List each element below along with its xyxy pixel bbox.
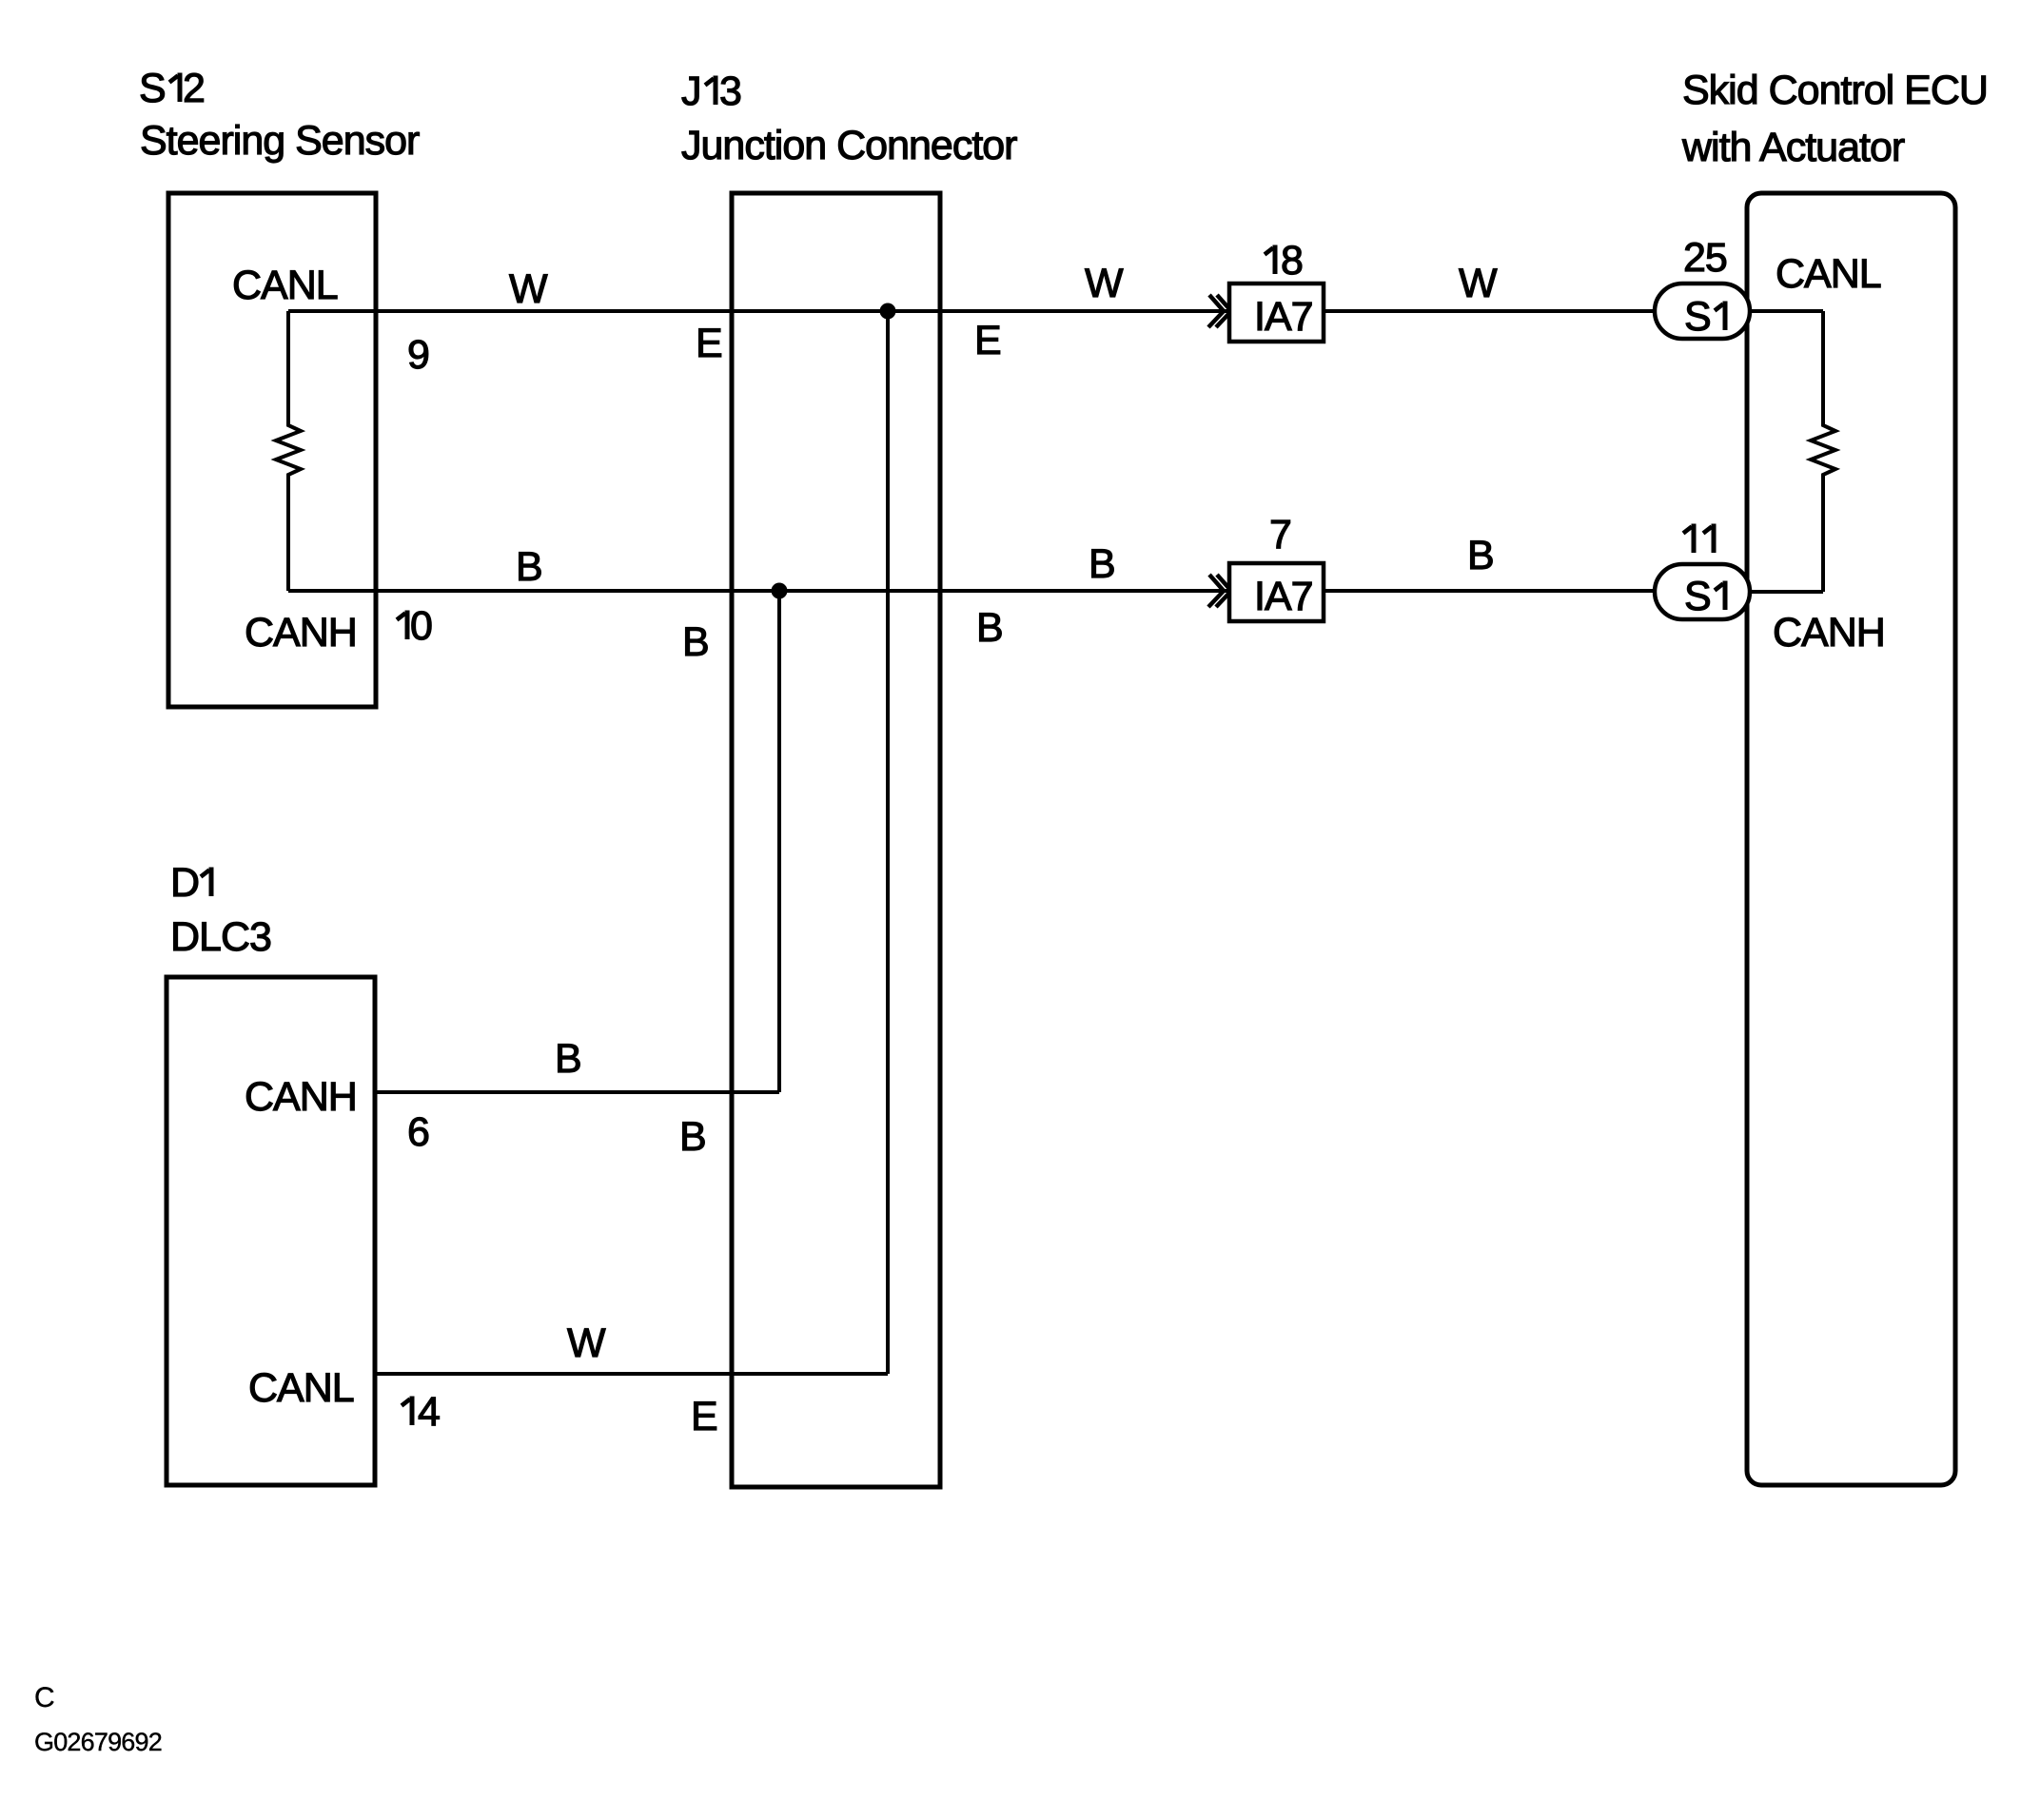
svg-text:CANH: CANH <box>245 1074 357 1120</box>
svg-text:C: C <box>34 1682 55 1713</box>
svg-text:D: D <box>170 860 199 906</box>
svg-text:Steering Sensor: Steering Sensor <box>140 118 420 164</box>
svg-text:B: B <box>682 619 709 665</box>
svg-text:Junction Connector: Junction Connector <box>681 123 1017 168</box>
svg-text:CANH: CANH <box>245 610 357 656</box>
svg-text:9: 9 <box>407 332 429 378</box>
svg-text:IA7: IA7 <box>1254 574 1313 619</box>
svg-text:CANL: CANL <box>232 263 338 308</box>
svg-text:Skid Control ECU: Skid Control ECU <box>1682 68 1988 113</box>
svg-text:E: E <box>691 1394 717 1439</box>
svg-text:W: W <box>1085 261 1124 306</box>
svg-text:S: S <box>1684 294 1711 340</box>
svg-text:B: B <box>555 1036 581 1082</box>
svg-text:E: E <box>696 321 722 366</box>
svg-text:S: S <box>139 66 166 111</box>
svg-text:W: W <box>509 266 548 312</box>
svg-text:CANL: CANL <box>248 1365 354 1411</box>
svg-text:3: 3 <box>719 68 741 114</box>
svg-text:B: B <box>516 544 542 590</box>
svg-text:W: W <box>1459 261 1498 306</box>
svg-text:B: B <box>679 1114 706 1160</box>
svg-text:S: S <box>1684 574 1711 619</box>
svg-text:E: E <box>974 318 1001 363</box>
svg-text:CANL: CANL <box>1776 251 1881 297</box>
svg-text:CANH: CANH <box>1773 610 1885 656</box>
svg-text:B: B <box>976 605 1003 651</box>
svg-text:B: B <box>1089 541 1115 587</box>
svg-text:J: J <box>681 68 701 114</box>
svg-text:with Actuator: with Actuator <box>1681 125 1905 170</box>
svg-text:B: B <box>1467 533 1494 578</box>
svg-text:8: 8 <box>1281 238 1303 284</box>
svg-text:IA7: IA7 <box>1254 294 1313 340</box>
svg-text:W: W <box>567 1321 606 1366</box>
svg-text:0: 0 <box>410 603 432 649</box>
svg-text:G02679692: G02679692 <box>34 1728 162 1756</box>
svg-text:4: 4 <box>418 1389 440 1435</box>
svg-text:2: 2 <box>183 66 205 111</box>
svg-text:6: 6 <box>407 1109 429 1155</box>
svg-text:DLC3: DLC3 <box>170 914 271 960</box>
svg-text:7: 7 <box>1269 512 1291 558</box>
svg-text:25: 25 <box>1683 235 1727 281</box>
